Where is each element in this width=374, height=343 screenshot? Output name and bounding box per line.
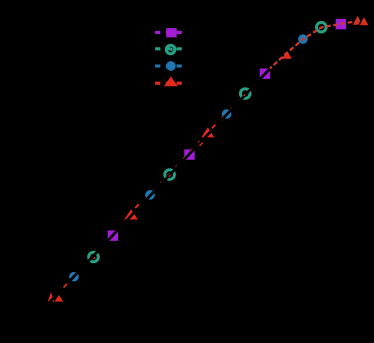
marker red-triangle P5 <box>124 209 138 219</box>
marker purple-square P16 <box>336 19 346 29</box>
marker teal-ring P3 <box>89 252 99 262</box>
marker blue-circle P10 <box>222 109 232 119</box>
red bright dash near triangle P9 <box>200 143 203 146</box>
marker blue-circle P2 <box>69 272 79 282</box>
red speck inside teal ring P3 <box>93 257 96 260</box>
legend entry 2: teal dash fragment in ring hole <box>171 48 173 51</box>
red bright dash near triangle P5 <box>135 204 139 208</box>
black reference line y=x (visible as slash over markers) <box>44 43 294 308</box>
legend entry 1: purple dashed line <box>155 31 182 34</box>
legend entry 4: red dashed line <box>155 82 182 85</box>
marker red-triangle P17 <box>353 16 362 25</box>
black separator slash between top-right triangles <box>359 16 364 27</box>
red dashed curve, dim lower straight section <box>63 133 207 288</box>
legend entry 4: red triangle marker <box>164 76 178 86</box>
marker purple-square P8 <box>184 149 194 159</box>
legend entry 3: blue circle marker <box>166 61 176 71</box>
marker teal-ring P7 <box>165 170 175 180</box>
marker teal-ring P15 <box>317 22 327 32</box>
red bright dash near triangle P9 upper <box>212 125 215 129</box>
legend entry 2: teal dashed line <box>155 47 182 50</box>
marker red-triangle P9 <box>201 127 214 137</box>
red dashed curve, mid straight section <box>207 68 270 133</box>
legend entry 2: teal ring marker <box>166 45 175 54</box>
marker red-triangle P1b <box>55 295 64 302</box>
marker purple-square P4 <box>108 230 118 240</box>
marker red-triangle P13 <box>281 49 292 59</box>
red speck inside teal ring P7 <box>168 175 171 178</box>
red bright dash near triangle P1 <box>64 284 68 288</box>
marker purple-square P12 <box>260 69 270 79</box>
marker teal-ring P11 <box>240 89 250 99</box>
marker blue-circle P6 <box>145 190 155 200</box>
marker red-triangle P1 <box>48 292 55 302</box>
blue dashed underlay, bright curved section <box>270 21 366 69</box>
legend entry 1: purple square marker <box>166 28 176 37</box>
red dashed curve, bright curved section <box>270 21 366 69</box>
legend entry 3: blue dashed line <box>155 64 182 67</box>
red speck inside teal ring P11 <box>243 94 246 97</box>
marker blue-circle P14 <box>298 34 308 44</box>
marker red-triangle P17b <box>359 17 368 25</box>
